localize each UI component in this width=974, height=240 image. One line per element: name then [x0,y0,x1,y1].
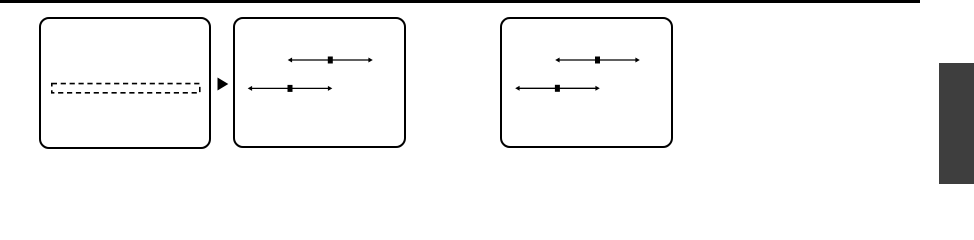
dashed text block inside panel 1 [52,84,200,93]
top rule [0,0,920,3]
panel 3 upper double-headed arrow with handle [555,57,640,64]
side tab bar [939,63,974,184]
panel 2 (result box A) [233,17,406,149]
panel 3 (result box B) [500,17,673,148]
panel 2 lower double-headed arrow with handle [248,85,333,92]
arrow (solid triangle) between panel 1 and panel 2 [218,78,229,91]
panel 2 upper double-headed arrow with handle [288,57,373,64]
panel 1 (source box) [39,17,211,149]
panel 3 lower double-headed arrow with handle [515,85,600,92]
